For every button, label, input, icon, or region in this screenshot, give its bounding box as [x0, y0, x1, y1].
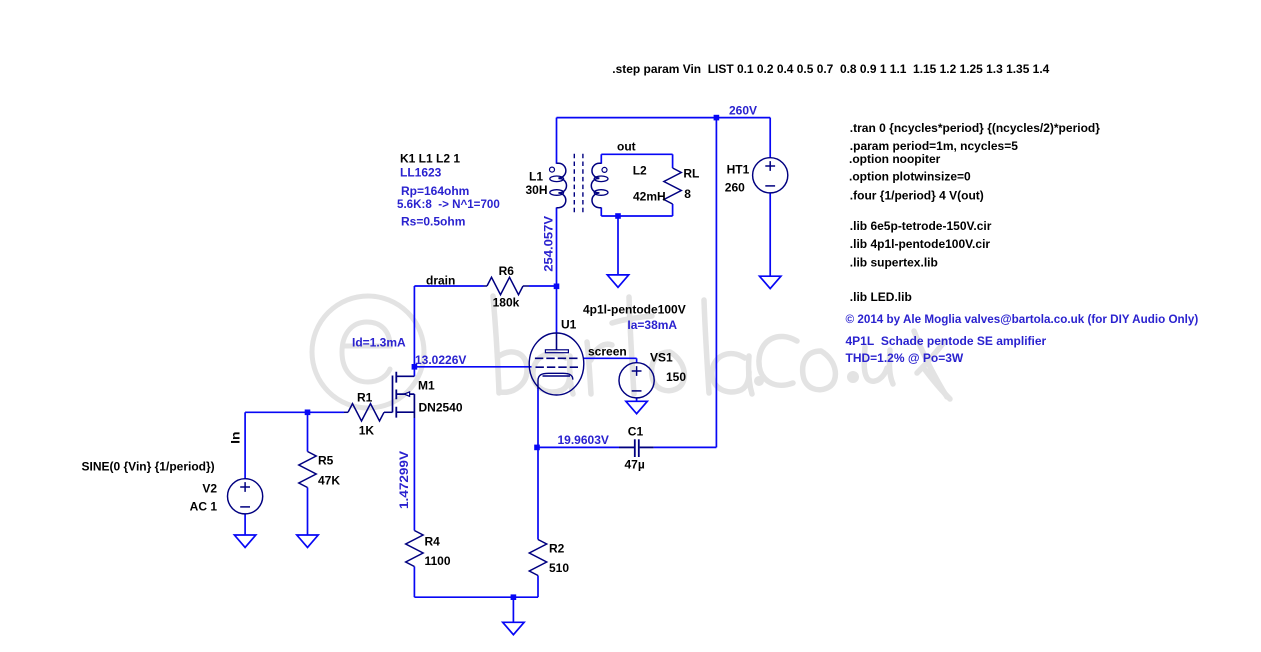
svg-text:260V: 260V [729, 103, 757, 117]
svg-text:K1 L1 L2 1: K1 L1 L2 1 [400, 151, 460, 165]
svg-text:180k: 180k [493, 295, 520, 309]
svg-text:.param period=1m, ncycles=5: .param period=1m, ncycles=5 [850, 139, 1018, 153]
svg-text:LL1623: LL1623 [400, 165, 442, 179]
svg-text:R5: R5 [318, 453, 334, 467]
svg-text:5.6K:8 -> N^1=700: 5.6K:8 -> N^1=700 [397, 197, 500, 211]
svg-text:1.47299V: 1.47299V [397, 451, 411, 509]
svg-text:R2: R2 [549, 541, 565, 555]
svg-text:R1: R1 [357, 390, 373, 404]
svg-text:.lib LED.lib: .lib LED.lib [850, 290, 912, 304]
svg-text:.lib 6e5p-tetrode-150V.cir: .lib 6e5p-tetrode-150V.cir [850, 219, 992, 233]
svg-text:HT1: HT1 [727, 162, 750, 176]
svg-text:AC 1: AC 1 [190, 499, 218, 513]
svg-text:.option plotwinsize=0: .option plotwinsize=0 [849, 170, 971, 184]
svg-text:42mH: 42mH [633, 189, 666, 203]
svg-text:drain: drain [426, 273, 455, 287]
svg-text:M1: M1 [418, 378, 435, 392]
svg-text:In: In [229, 432, 243, 444]
svg-text:30H: 30H [525, 183, 547, 197]
svg-text:19.9603V: 19.9603V [558, 433, 609, 447]
svg-text:47µ: 47µ [625, 458, 645, 472]
svg-text:510: 510 [549, 561, 569, 575]
svg-text:screen: screen [588, 344, 627, 358]
svg-text:THD=1.2% @ Po=3W: THD=1.2% @ Po=3W [846, 351, 964, 365]
svg-text:R4: R4 [425, 534, 441, 548]
svg-text:8: 8 [684, 187, 691, 201]
svg-text:© 2014 by Ale Moglia valves@ba: © 2014 by Ale Moglia valves@bartola.co.u… [846, 312, 1199, 326]
svg-text:1K: 1K [359, 423, 375, 437]
svg-text:4P1L Schade pentode SE amplif: 4P1L Schade pentode SE amplifier [846, 334, 1047, 348]
svg-text:.step param Vin LIST 0.1 0.2: .step param Vin LIST 0.1 0.2 0.4 0.5 0.7… [612, 62, 1049, 76]
svg-text:47K: 47K [318, 473, 340, 487]
svg-text:L1: L1 [529, 169, 543, 183]
svg-text:VS1: VS1 [650, 350, 673, 364]
svg-text:.tran 0 {ncycles*period} {(ncy: .tran 0 {ncycles*period} {(ncycles/2)*pe… [850, 121, 1100, 135]
svg-text:L2: L2 [633, 163, 647, 177]
svg-text:150: 150 [666, 370, 686, 384]
svg-text:4p1l-pentode100V: 4p1l-pentode100V [583, 302, 686, 316]
svg-text:13.0226V: 13.0226V [415, 353, 466, 367]
svg-text:.lib 4p1l-pentode100V.cir: .lib 4p1l-pentode100V.cir [850, 237, 991, 251]
svg-text:Ia=38mA: Ia=38mA [627, 318, 677, 332]
svg-text:260: 260 [725, 181, 745, 195]
svg-text:.option noopiter: .option noopiter [849, 152, 941, 166]
svg-text:SINE(0 {Vin} {1/period}): SINE(0 {Vin} {1/period}) [82, 459, 215, 473]
svg-text:.lib supertex.lib: .lib supertex.lib [850, 255, 938, 269]
svg-text:U1: U1 [561, 317, 577, 331]
svg-text:1100: 1100 [425, 554, 451, 568]
svg-text:.four {1/period} 4 V(out): .four {1/period} 4 V(out) [850, 189, 984, 203]
svg-text:Rs=0.5ohm: Rs=0.5ohm [401, 214, 465, 228]
svg-text:Rp=164ohm: Rp=164ohm [401, 184, 469, 198]
svg-text:C1: C1 [628, 424, 644, 438]
svg-text:out: out [617, 139, 636, 153]
svg-text:R6: R6 [499, 264, 515, 278]
svg-text:Id=1.3mA: Id=1.3mA [352, 335, 406, 349]
svg-text:V2: V2 [202, 481, 217, 495]
svg-text:DN2540: DN2540 [419, 400, 463, 414]
svg-text:RL: RL [683, 166, 699, 180]
svg-text:254.057V: 254.057V [541, 216, 555, 272]
